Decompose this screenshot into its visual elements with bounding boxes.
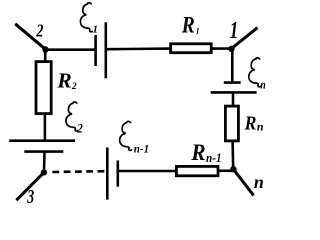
label R2 [56,69,77,93]
node 2 [42,46,48,52]
wire [44,114,47,141]
resistor Rn [225,106,238,141]
label ξ2 [66,102,83,136]
wire [46,48,96,51]
svg-text:1: 1 [93,24,99,36]
svg-text:n-1: n-1 [206,151,222,166]
svg-text:n: n [260,78,265,91]
wire [118,170,177,173]
wire [16,172,44,200]
wire [231,49,234,82]
wire [43,152,46,173]
wire [232,28,258,49]
svg-text:R: R [244,112,257,135]
svg-text:R: R [56,69,71,93]
resistor R1 [171,44,212,53]
svg-text:2: 2 [71,82,77,92]
wire [233,169,253,195]
svg-text:n: n [254,172,264,192]
svg-text:2: 2 [76,120,82,135]
battery ξn [211,83,257,93]
wire [106,47,171,50]
label Rn [244,112,264,135]
wire [15,24,45,50]
resistor R2 [36,62,51,114]
svg-text:R: R [190,139,205,165]
node 3 [41,169,47,175]
wire [232,92,235,106]
battery ξn-1 [107,148,118,200]
svg-text:1: 1 [230,16,239,44]
label ξ1 [80,3,98,36]
resistor Rn-1 [176,166,218,175]
wire [52,170,104,173]
svg-text:n-1: n-1 [134,143,149,155]
label ξn [249,58,266,92]
node 1 [228,46,234,52]
node n [230,166,236,172]
label ξn-1 [120,121,149,155]
wire [231,141,234,169]
wire [211,47,231,50]
svg-text:1: 1 [196,27,200,36]
battery ξ2 [9,141,75,152]
svg-text:R: R [181,12,195,38]
battery ξ1 [96,22,106,78]
svg-text:n: n [257,120,264,134]
wire [218,170,233,173]
label Rn-1 [190,139,221,165]
svg-text:2: 2 [36,22,44,41]
wire [44,50,47,62]
label R1 [181,12,200,38]
